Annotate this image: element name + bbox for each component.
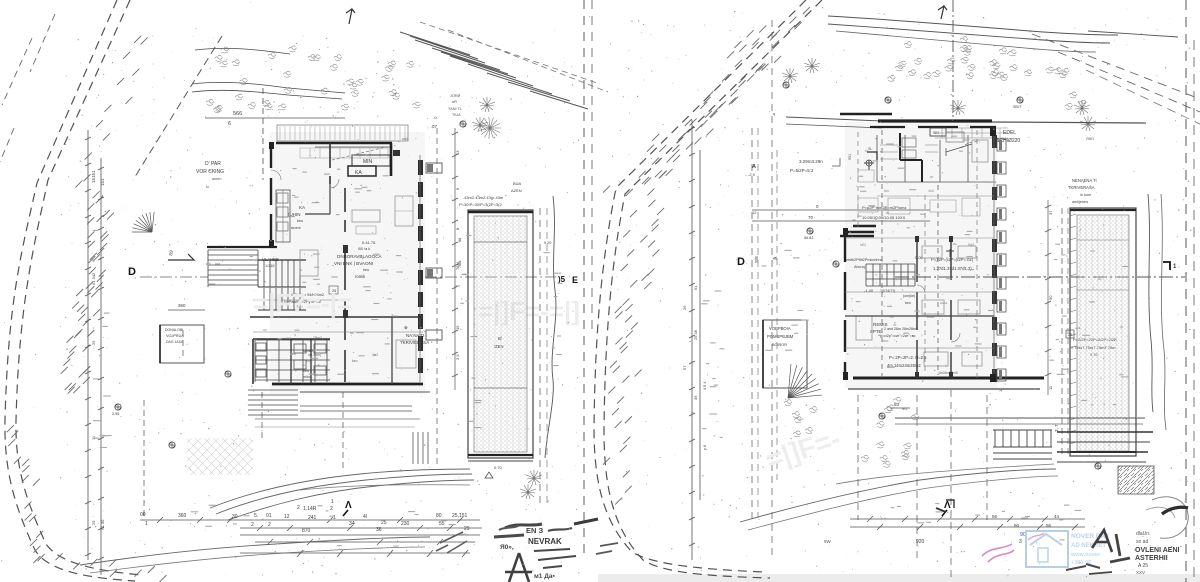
svg-text:A: A [752,164,756,170]
svg-text:25 46: 25 46 [693,329,698,340]
corner bracket right [1163,262,1170,270]
dark jambs right building [843,228,848,236]
svg-text:www.nover: www.nover [1070,552,1101,558]
window boxes along right wall [997,139,1006,381]
dash-dot section line right plan [895,276,1185,278]
kitchen counter along left wall [276,190,290,242]
svg-text:keo: keo [352,359,358,363]
svg-text:56: 56 [1046,523,1052,528]
svg-text:=|F7=-|=: =|F7=-|= [253,288,352,318]
dashed vertical seg left plan top [262,88,264,180]
svg-text:44: 44 [1054,514,1060,519]
lines below building [300,405,412,407]
svg-text:zhith2P8fl2Pmlcmhnq: zhith2P8fl2Pmlcmhnq [846,258,883,262]
svg-text:4m04m04m0: 4m04m04m0 [938,371,958,375]
right plan horizontal dim top [752,209,930,211]
dashed diagonals top-center [420,22,608,92]
right terrace top thick [1070,209,1136,211]
entry stairs block [208,250,258,287]
starburst large [479,117,501,139]
svg-text:nі1.8smj: nі1.8smj [308,353,321,357]
svg-text:eromi: eromi [291,226,301,230]
svg-text:2: 2 [297,505,300,511]
level 56.82 [807,228,813,234]
svg-text:romik: romik [355,274,366,279]
dark jambs mid wall [343,245,348,253]
svg-text:POMBPBJBM: POMBPBJBM [767,334,794,339]
SEI box [930,128,946,136]
palm top-right left plan [479,97,495,112]
svg-text:13: 13 [455,150,460,155]
terrace bottom walls [468,454,533,456]
diagonal dashed lines right of right plan [1032,34,1200,99]
svg-text:12: 12 [752,210,757,215]
svg-text:80: 80 [436,513,442,519]
upper boundary hatch right plan [639,7,810,184]
dashed diagonal in upper room [332,147,386,160]
vegetation bottom right building [784,397,919,467]
svg-text:NENĄENA Tі: NENĄENA Tі [1072,178,1097,183]
svg-text:230: 230 [401,521,410,527]
right terrace bottom [1070,451,1136,453]
svg-text:TIUA: TIUA [452,113,461,117]
svg-text:15: 15 [455,325,460,330]
svg-text:VNI BNK | BVAONI: VNI BNK | BVAONI [334,261,373,266]
svg-text:51 342: 51 342 [91,272,96,285]
fan stair bottom-left of right building [788,364,822,398]
svg-text:P=:2P=2P=2. N=2.5: P=:2P=2P=2. N=2.5 [889,355,927,360]
svg-text:so ad: so ad [1136,539,1148,545]
svg-text:P=30!P=30!P=3(2P=3(2: P=30!P=30!P=3(2P=3(2 [459,202,502,207]
left building bottom wall [272,383,423,386]
svg-text:lo kom: lo kom [1080,193,1091,197]
left building pergola band [277,125,408,141]
svg-text:39: 39 [693,395,698,400]
svg-text:25: 25 [381,520,387,526]
wall above entry [207,246,277,248]
svg-text:0.41.75: 0.41.75 [362,240,376,245]
svg-text:4l: 4l [363,514,367,520]
svg-text:56: 56 [992,514,998,519]
svg-text:VOJPRUA: VOJPRUA [166,334,184,338]
stone hatch block [1118,466,1154,494]
right terrace outer rect [1070,208,1136,456]
svg-text:SBJT: SBJT [1013,105,1022,109]
palm below terrace [526,470,542,485]
right ruler of right plan [1045,200,1051,395]
svg-text:A 25: A 25 [1138,563,1148,569]
svg-text:˙: ˙ [569,277,571,283]
dashed verticals near terrace [539,208,541,505]
gray wash right building [845,122,997,388]
upper room shelving lines [880,145,938,159]
short contour top right [1088,31,1178,37]
stair arrow upper right building [946,144,972,152]
svg-text:1Bm?: 1Bm? [313,336,322,340]
bottom dim lines right plan [850,518,1085,520]
gray wash left building [270,132,425,394]
vertical dashes below building [342,392,344,470]
svg-text:Λ: Λ [944,500,951,511]
upper rooms partitions right building [877,135,996,182]
svg-text:29: 29 [464,526,470,532]
small verticals cluster [413,432,428,464]
svg-text:)5: )5 [558,275,566,284]
vegetation band top of left plan [206,46,420,113]
bathroom dark walls [253,338,330,340]
svg-text:DONIA-OBI: DONIA-OBI [165,328,183,332]
living room furniture [352,210,380,222]
arc scribbles right [1152,497,1188,538]
svg-text:2 and 28m 28m28m2: 2 and 28m 28m28m2 [884,327,918,331]
terrace top thick edge [468,211,533,213]
svg-text:6: 6 [228,121,231,127]
level symbols right top [783,82,789,88]
right rooms partition [391,317,393,384]
lower outer terrain arcs [80,537,430,565]
stepped diagonal contours top-center [400,32,588,109]
far right dashed verticals [1185,0,1187,582]
small dark block top-right [393,150,400,156]
svg-text:q: q [773,111,775,116]
corner bracket bottom [946,500,954,508]
svg-text:аmеn: аmеn [212,177,222,181]
magenta scribbles [982,544,1014,562]
svg-text:151: 151 [100,178,105,186]
partition jambs [915,236,919,242]
left terrace vertical striping [477,217,525,451]
center dark stamp [436,519,618,582]
terrace inner divisions [474,241,527,243]
dim 360 left [168,309,205,311]
right plan top contour curves [828,16,1118,35]
long double line below right building [895,417,1145,419]
palms right plan top [804,58,820,73]
wall right of MIN [390,143,393,176]
top-left corner extra dashes [0,14,55,162]
svg-text:р=сі2р°=сиг°=2иг°=вс: р=сі2р°=сиг°=2иг°=вс [880,334,916,338]
svg-text:2: 2 [251,522,254,528]
svg-text:BOIROR: BOIROR [772,343,787,347]
masonry band top wall [935,128,1008,138]
vegetation band top right plan [887,37,1086,110]
svg-text:NA:NA TI: NA:NA TI [406,333,424,338]
svg-text:51: 51 [693,285,698,290]
svg-text:P=2/2P=22P=2/2P=2і2Й: P=2/2P=22P=2/2P=2і2Й [1073,337,1117,342]
left building interior wall v1 [330,143,345,232]
terrain curves bottom left plan [210,469,470,508]
window sill boxes outside right wall [426,163,442,173]
north arrow right plan [938,6,947,19]
north arrow left plan [346,9,355,24]
upper-left fixture rects [902,138,916,147]
right building top wall upper part [870,126,996,128]
svg-text:Λ: Λ [345,500,352,511]
bottom-right blue watermark logo [1026,531,1109,567]
upper hall partitions [329,184,331,214]
right terrace dotted fill [1077,215,1129,451]
svg-text:JORЙ: JORЙ [450,94,461,98]
svg-text:00: 00 [140,512,146,518]
terrain curves bottom right plan [740,469,1056,522]
svg-text:←-2.9: ←-2.9 [744,172,756,177]
svg-text:5.: 5. [254,513,258,519]
svg-text:ASTERHII: ASTERHII [1135,555,1168,562]
right building horizontal partitions [845,291,994,293]
left dimension ruler [85,130,104,575]
right building dashed verticals interior [881,130,883,378]
svg-text:7.75m7.75m7.75m7.75m: 7.75m7.75m7.75m7.75m [1071,345,1116,350]
dashed verticals right plan interior [751,128,753,520]
step wall bars left-center [853,225,876,228]
svg-text:4m2: 4m2 [928,189,934,193]
hallway lines mid [253,299,345,301]
svg-text:KA: KA [299,205,305,210]
right building upper-left stepped walls [900,133,922,182]
left building top wall [276,142,392,145]
right building interior furniture [922,300,944,314]
svg-text:AZEN: AZEN [511,188,522,193]
terrace outer rect [468,210,533,458]
right building left wall [844,230,846,378]
svg-text:30: 30 [1048,295,1053,300]
svg-text:XXV: XXV [1136,570,1145,575]
corner wall top [845,231,874,233]
svg-text:miko: miko [303,375,311,379]
svg-text:AD NEKRET: AD NEKRET [1071,543,1106,549]
svg-text:870: 870 [302,528,311,534]
right building central stairs [866,264,915,286]
mid band room lines [845,237,994,239]
pseudo text clutter [92,136,1129,546]
svg-text:2: 2 [330,506,333,512]
svg-text:ЛBO: ЛBO [1086,137,1094,141]
svg-text:360: 360 [178,513,187,519]
svg-text:keo: keo [363,268,369,272]
svg-text:D: D [128,266,136,278]
svg-text:Я0»,: Я0», [500,544,514,551]
svg-text:8ф2: 8ф2 [968,243,974,247]
right building right window wall [992,130,997,382]
dark thick arc [1162,507,1188,514]
slope hatching left of right plan [603,17,802,505]
svg-text:.43m2.43m2.43(p.43m: .43m2.43m2.43(p.43m [463,195,504,200]
svg-text:9W: 9W [824,539,832,544]
svg-text:1: 1 [331,499,334,505]
svg-text:↕: ↕ [461,297,463,301]
mid band furniture [858,198,878,212]
survey marker left [864,160,874,170]
dash-dot vertical right plan [952,0,954,120]
dim 566 [205,117,345,119]
terrace dotted fill [474,216,527,452]
bottom stairs right plan [993,430,1052,459]
curved stair fan left [132,212,154,232]
svg-text:4м2: 4м2 [372,353,378,357]
left property boundary dashed inner [16,0,142,575]
wavy terrain lines right of right terrace [1148,194,1153,412]
svg-text:1: 1 [145,521,148,527]
right plan boundary dashed outer [604,0,822,578]
dashed verticals left of right terrace [1061,208,1063,455]
interior stair lower [258,260,300,310]
svg-text:TKRIVERAŠA: TKRIVERAŠA [1068,185,1095,190]
svg-text:ld02: ld02 [860,243,866,247]
anchor symbol central [946,249,954,257]
svg-text:25: 25 [91,340,96,345]
door swings right building [917,285,925,293]
door swing dashed top right [961,142,980,148]
svg-text:25,151: 25,151 [452,513,468,519]
right terrace vertical striping [1080,216,1128,450]
svg-text:55: 55 [439,521,445,527]
svg-text:1.14R: 1.14R [303,506,317,512]
svg-text:1.37d1.37d1.37d1.3): 1.37d1.37d1.37d1.3) [933,266,972,271]
svg-text:3, 7: 3, 7 [1054,424,1059,432]
extra dim slashes left plan [157,517,468,557]
left inner diagonal dashed segment [133,36,222,180]
svg-text:NEVRAK: NEVRAK [528,537,562,546]
right building interior partitions [916,238,918,375]
svg-text:15151: 15151 [91,170,96,183]
svg-text:3.29m3.29n: 3.29m3.29n [799,159,823,164]
svg-text:3 5: 3 5 [455,354,460,360]
svg-text:kmї: kmї [306,359,312,363]
left plan dashed verticals bottom [143,400,145,516]
scanner gray band [598,574,1200,582]
svg-text:Abcnq: Abcnq [854,265,865,269]
svg-text:YANI TL: YANI TL [448,107,462,111]
tick ruler left of right terrace [1070,214,1076,444]
svg-text:м1 Да▪: м1 Да▪ [534,573,555,580]
svg-text:KA: KA [355,170,362,176]
svg-text:keo: keo [905,301,911,305]
door swing upper [271,170,281,180]
svg-text:⊕: ⊕ [404,325,408,330]
svg-text:920: 920 [916,539,925,545]
svg-text:01: 01 [266,513,272,519]
svg-text:E: E [572,275,578,285]
svg-text:SL 30: SL 30 [100,519,105,530]
svg-text:OVLENI AENI: OVLENI AENI [1135,547,1180,554]
bathroom fixtures [256,343,266,351]
svg-text:70: 70 [808,215,814,220]
svg-text:37: 37 [1048,210,1053,215]
right plan left ruler [689,120,700,560]
svg-text:VOR ЄKING: VOR ЄKING [196,169,224,175]
svg-text:IZEN: IZEN [494,344,504,349]
SL corner mark [867,152,877,160]
svg-text:2: 2 [268,522,271,528]
svg-text:57: 57 [682,365,687,370]
svg-text:0.70: 0.70 [494,465,503,470]
hatch along bottom-left boundary [7,425,167,582]
svg-text:kі: kі [206,185,209,189]
wavy terrain line right of terrace [545,196,556,458]
svg-text:i00 /a k: i00 /a k [358,247,370,251]
left annex room (VOJPRUA) [160,325,204,363]
right dim ruler of left building [452,128,458,390]
svg-text:12: 12 [284,514,290,520]
level symbols left plan [115,404,121,410]
svg-text:ЕN З: ЕN З [526,526,544,535]
svg-text:SEI: SEI [933,131,939,135]
svg-text:D: D [737,256,745,268]
svg-text:9.70: 9.70 [1090,353,1097,357]
svg-text:иR: иR [452,100,457,104]
svg-text:у 6: у 6 [703,445,707,450]
svg-text:360: 360 [178,303,186,308]
slope hatching left of left plan [61,36,148,394]
svg-text:566: 566 [233,111,242,117]
left annex wall dark [159,325,161,363]
svg-text:-0.: -0. [433,115,438,120]
svg-text:25: 25 [91,520,96,525]
svg-text:76M: 76M [458,261,462,268]
left property boundary dashed outer [5,0,135,581]
svg-text:keo: keo [884,189,889,193]
extra dim slashes right plan [877,524,1078,530]
S9 arrow marker [168,254,194,260]
dash-dot section line left plan [140,276,208,278]
svg-text:MIN: MIN [363,159,373,165]
svg-text:4 5 4: 4 5 4 [703,382,707,390]
window wall right side [418,155,423,382]
kitchen fixtures [277,193,288,203]
bathroom block bottom-left [255,340,330,382]
svg-text:D' PAR: D' PAR [205,161,221,167]
svg-text:amlijenes: amlijenes [1072,200,1088,204]
svg-text:(om(ke): (om(ke) [903,294,915,298]
svg-text:NOVER BAЈ: NOVER BAЈ [1071,533,1109,540]
svg-text:keo: keo [303,369,309,373]
svg-text:SL: SL [868,147,872,151]
paving x-hatch below building [187,438,253,475]
svg-text:P=5і2P=5:2: P=5і2P=5:2 [790,168,814,173]
svg-text:29: 29 [682,305,687,310]
svg-text:951: 951 [848,154,852,160]
right building bottom wall [853,377,1044,380]
thick top wall bar right plan [840,113,892,116]
svg-text:keo: keo [297,219,303,223]
mid horizontal wall [250,316,423,318]
right plan boundary dashed inner [594,0,806,572]
svg-text:25: 25 [1068,332,1073,337]
svg-text:TKRIVIERASA: TKRIVIERASA [400,340,429,345]
svg-text:88: 88 [458,238,462,242]
svg-text:⊕4: ⊕4 [902,407,907,411]
closet row under top wall [300,148,388,158]
driveway double line [192,82,345,93]
bottom stairs left plan [248,390,298,415]
svg-text:яф1: яф1 [402,137,409,141]
svg-text:56.82: 56.82 [804,236,814,240]
interior wall v2 (center) [344,247,346,382]
svg-text:BUA: BUA [513,181,522,186]
svg-text:10.05/10.05/10.05 10XX: 10.05/10.05/10.05 10XX [862,215,905,220]
dashed verticals between plans [583,0,585,560]
svg-text:9.20: 9.20 [544,241,551,245]
left building left wall [270,142,272,245]
retaining bars bottom right [1057,431,1153,433]
VOBPBOIA room annex [763,320,807,388]
bottom-right dark stamp [1066,530,1180,575]
svg-text:DAG JASA: DAG JASA [166,340,184,344]
bottom dim lines left plan [140,519,480,521]
right terrace inner corner marks [1077,240,1129,290]
stair boundary lines [258,259,306,261]
svg-text:3: 3 [1019,539,1022,545]
